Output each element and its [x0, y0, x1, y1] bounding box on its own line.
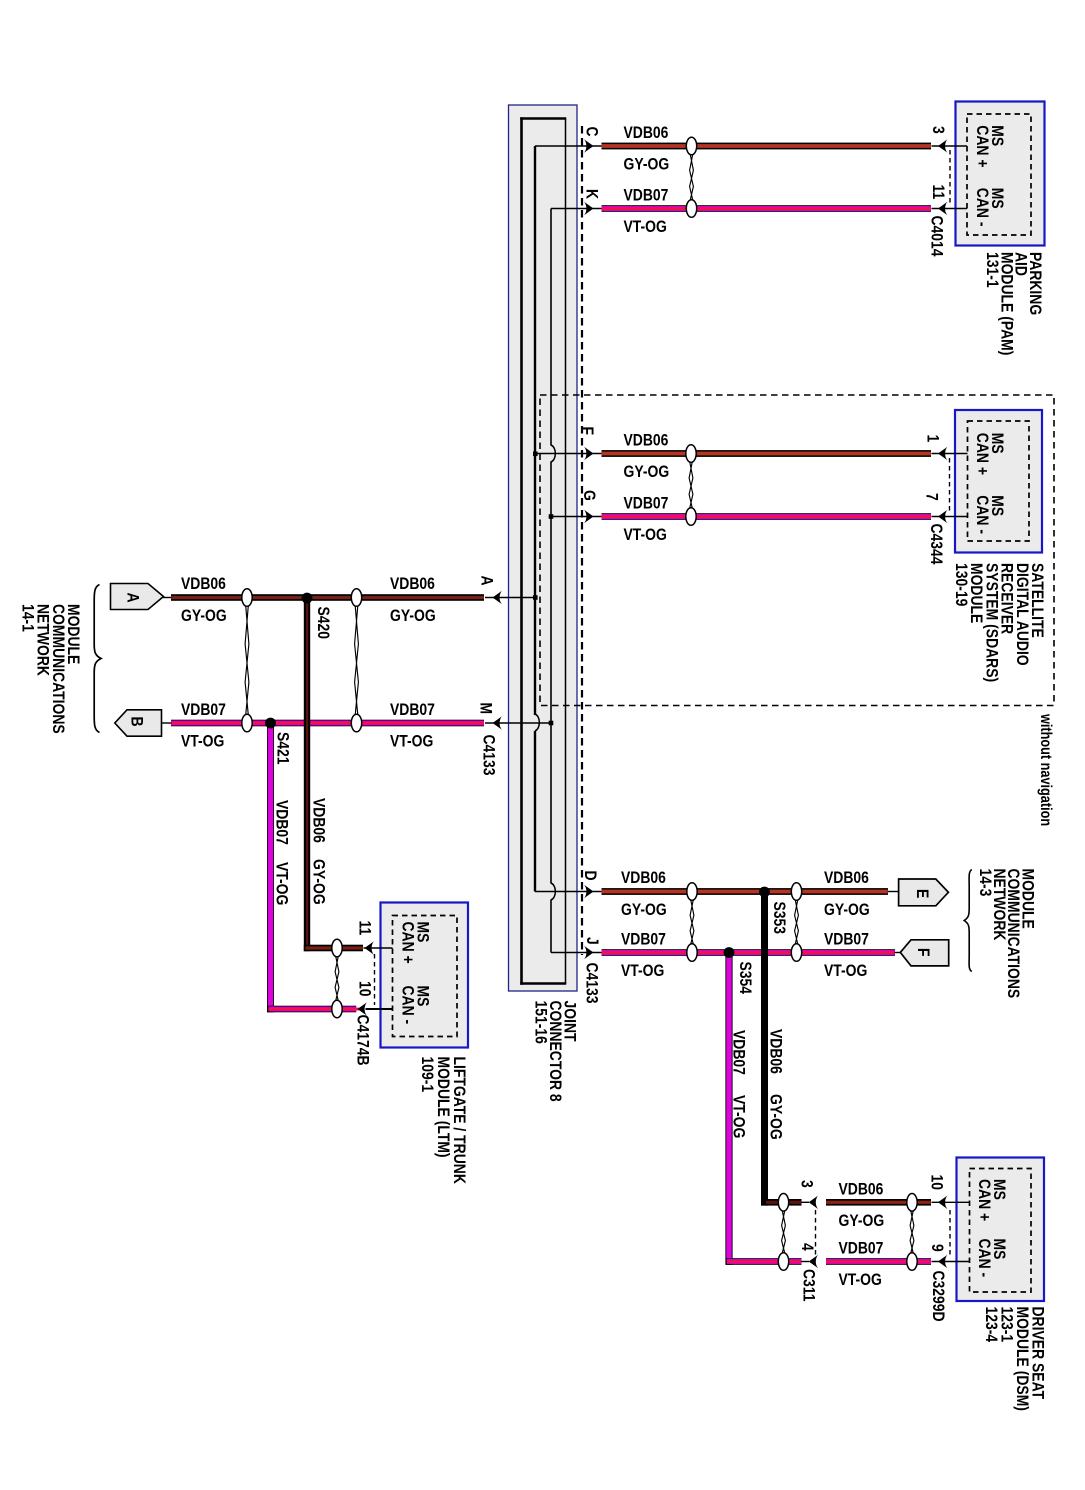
joint connector 8 outer box — [509, 105, 578, 991]
CAN+ internal bus bar lower segment — [534, 731, 536, 892]
svg-text:10: 10 — [927, 1175, 946, 1190]
splice S354 — [724, 947, 735, 958]
connector C4174B dashed stub — [374, 954, 376, 1005]
wire VDB06 GY-OG row F — [602, 450, 932, 457]
svg-text:CAN +: CAN + — [975, 1179, 994, 1221]
parking aid module box — [956, 102, 1045, 246]
stub pentagon F — [895, 952, 904, 954]
svg-text:VDB06: VDB06 — [624, 431, 669, 450]
joint connector body left edge — [520, 117, 523, 984]
svg-text:GY-OG: GY-OG — [390, 607, 436, 626]
arrow LTM pin 10 — [358, 1002, 368, 1016]
svg-text:VT-OG: VT-OG — [181, 732, 224, 751]
tail line DSM pin 10 — [932, 1201, 970, 1203]
arrow PAM pin 11 — [938, 202, 948, 216]
network connector pentagon F — [900, 940, 948, 966]
svg-text:109-1: 109-1 — [418, 1057, 437, 1093]
tap line pin D — [535, 891, 602, 893]
svg-text:K: K — [582, 189, 601, 200]
svg-text:VDB07: VDB07 — [729, 1030, 748, 1075]
svg-text:S421: S421 — [273, 732, 292, 765]
arrow SDARS pin 1 — [938, 447, 948, 461]
arrow pin A left exit — [493, 591, 503, 605]
wire DSM stub from S354 elbow to C311 — [726, 1258, 802, 1265]
svg-text:C3299D: C3299D — [929, 1271, 948, 1322]
twisted pair symbol LTM rows — [332, 939, 342, 1018]
twisted pair symbol DSM rows first — [778, 1194, 788, 1271]
twisted pair symbol A-B rows first — [242, 589, 252, 732]
joint connector body bottom edge — [520, 982, 566, 985]
svg-text:M: M — [476, 703, 495, 715]
twisted pair symbol F-G rows — [686, 445, 696, 526]
svg-text:7: 7 — [922, 493, 941, 501]
wire VDB07 VT-OG row B left — [171, 720, 484, 727]
svg-text:CAN -: CAN - — [398, 986, 417, 1025]
arrow PAM pin 3 — [938, 139, 948, 153]
tap line pin F — [535, 453, 602, 455]
svg-text:C4344: C4344 — [927, 524, 946, 565]
arrow LTM pin 11 — [365, 941, 375, 955]
svg-text:CAN -: CAN - — [973, 495, 992, 534]
twisted pair symbol DSM rows second — [907, 1194, 917, 1271]
arrow pin J — [584, 946, 594, 960]
svg-text:B: B — [127, 717, 146, 727]
svg-text:C: C — [582, 127, 601, 137]
svg-text:VDB06: VDB06 — [390, 575, 435, 594]
svg-text:J: J — [583, 937, 602, 945]
svg-text:CAN -: CAN - — [975, 1239, 994, 1278]
svg-text:GY-OG: GY-OG — [621, 901, 667, 920]
svg-text:GY-OG: GY-OG — [624, 155, 670, 174]
wire VDB07 VT-OG row G — [602, 513, 932, 520]
wire VDB06 GY-OG row C — [602, 143, 932, 150]
svg-text:VDB06: VDB06 — [181, 575, 226, 594]
stub pentagon A — [163, 597, 172, 599]
svg-text:VT-OG: VT-OG — [839, 1271, 882, 1290]
junction dot F tap — [533, 452, 538, 457]
svg-text:14-3: 14-3 — [975, 869, 994, 897]
svg-text:VDB06: VDB06 — [824, 869, 869, 888]
tail line SDARS pin 1 — [932, 453, 968, 455]
connector C4014 dashed stub — [949, 150, 951, 205]
svg-text:GY-OG: GY-OG — [824, 901, 870, 920]
arrow DSM pin 10 — [938, 1196, 948, 1210]
svg-text:C311: C311 — [799, 1269, 818, 1302]
svg-text:GY-OG: GY-OG — [624, 463, 670, 482]
svg-text:VDB06: VDB06 — [621, 869, 666, 888]
svg-text:VDB07: VDB07 — [621, 930, 666, 949]
svg-text:VDB06: VDB06 — [766, 1029, 785, 1074]
wire DSM stub from S353 elbow to C311 — [761, 1199, 802, 1206]
svg-text:VDB07: VDB07 — [181, 701, 226, 720]
arrow pin D — [584, 885, 594, 899]
svg-text:VDB06: VDB06 — [624, 124, 669, 143]
svg-text:CAN +: CAN + — [398, 922, 417, 964]
splice S353 — [759, 887, 770, 898]
driver seat module box — [957, 1158, 1045, 1302]
svg-text:123-4: 123-4 — [982, 1307, 1001, 1343]
svg-text:GY-OG: GY-OG — [839, 1212, 885, 1231]
CAN- internal bus bar middle segment — [550, 462, 552, 884]
arrow pin K — [584, 202, 594, 216]
svg-text:G: G — [580, 490, 599, 501]
arrow C311 pin 3 — [809, 1196, 819, 1210]
brace module communications network 14-3 — [964, 870, 972, 972]
svg-text:A: A — [477, 576, 496, 586]
twisted pair symbol D-J rows first — [687, 883, 697, 962]
wire LTM pin 10 horizontal VDB07 — [267, 1006, 356, 1013]
svg-text:GY-OG: GY-OG — [181, 607, 227, 626]
tap line pin A to left exit — [485, 597, 535, 599]
joint connector body top edge — [520, 117, 566, 120]
wire DSM row 3-10 VDB06 — [826, 1199, 931, 1206]
wire splice S354 vertical drop VDB07 — [725, 953, 732, 1265]
svg-text:D: D — [581, 871, 600, 881]
wire DSM row 4-9 VDB07 — [826, 1258, 931, 1265]
svg-text:VDB07: VDB07 — [824, 930, 869, 949]
tail line C311 pin 3 — [801, 1201, 809, 1203]
svg-text:CAN +: CAN + — [973, 433, 992, 475]
svg-text:151-16: 151-16 — [531, 1001, 550, 1045]
CAN- internal bus bar upper segment — [550, 209, 552, 446]
connector C311 dashed stub — [815, 1210, 817, 1257]
tap line pin K — [551, 208, 602, 210]
brace module communications network 14-1 — [94, 585, 101, 733]
network connector pentagon E — [899, 879, 949, 906]
wire VDB06 GY-OG row D — [602, 888, 889, 895]
connector C4133 dashed line — [581, 126, 583, 955]
CAN- internal bus bar lower segment — [550, 900, 552, 953]
parking aid module inner dashed rect — [967, 114, 1031, 235]
svg-text:GY-OG: GY-OG — [766, 1094, 785, 1140]
svg-text:10: 10 — [355, 981, 374, 996]
svg-text:130-19: 130-19 — [952, 563, 971, 607]
network connector pentagon A — [111, 584, 164, 610]
stub pentagon E — [888, 891, 899, 893]
svg-text:A: A — [123, 593, 142, 603]
svg-text:S353: S353 — [770, 902, 789, 935]
junction dot A tap — [533, 595, 538, 600]
svg-text:3: 3 — [797, 1180, 816, 1188]
svg-text:VT-OG: VT-OG — [729, 1095, 748, 1138]
svg-text:S354: S354 — [736, 962, 755, 995]
svg-text:VDB07: VDB07 — [839, 1239, 884, 1258]
svg-text:4: 4 — [798, 1243, 817, 1251]
svg-text:C4014: C4014 — [927, 216, 946, 257]
driver seat module inner dashed rect — [970, 1169, 1032, 1293]
CAN- bus jog around F wire — [551, 445, 555, 462]
wire VDB07 VT-OG row J — [602, 949, 896, 956]
junction dot G tap — [549, 514, 554, 519]
svg-text:E: E — [913, 889, 932, 898]
svg-text:VT-OG: VT-OG — [272, 862, 291, 905]
svg-text:C4133: C4133 — [479, 735, 498, 776]
splice S420 — [302, 593, 313, 604]
svg-text:VT-OG: VT-OG — [624, 218, 667, 237]
stub pentagon B — [162, 722, 172, 724]
svg-text:F: F — [578, 427, 597, 436]
wire LTM pin 11 horizontal VDB06 — [304, 945, 363, 952]
tap line pin J — [551, 952, 602, 954]
liftgate trunk module inner dashed rect — [393, 916, 458, 1037]
tap line pin G — [551, 516, 602, 518]
svg-text:11: 11 — [929, 185, 948, 200]
svg-text:VT-OG: VT-OG — [390, 732, 433, 751]
arrow pin C — [584, 139, 594, 153]
svg-text:3: 3 — [929, 126, 948, 134]
wire splice S353 vertical drop VDB06 black — [761, 892, 768, 1206]
svg-text:CAN -: CAN - — [973, 188, 992, 227]
svg-text:C4174B: C4174B — [353, 1015, 372, 1066]
CAN+ bus jog around M wire — [535, 714, 539, 731]
svg-text:VDB07: VDB07 — [272, 800, 291, 845]
svg-text:11: 11 — [355, 921, 374, 936]
svg-text:9: 9 — [928, 1244, 947, 1252]
without navigation dashed box — [540, 395, 1054, 706]
svg-text:14-1: 14-1 — [18, 604, 37, 632]
tail line PAM pin 11 — [932, 208, 968, 210]
tap line pin C — [535, 145, 602, 147]
svg-text:VT-OG: VT-OG — [624, 526, 667, 545]
svg-text:VT-OG: VT-OG — [621, 962, 664, 981]
arrow C311 pin 4 — [809, 1255, 819, 1269]
svg-text:VDB07: VDB07 — [624, 186, 669, 205]
tail line PAM pin 3 — [932, 145, 968, 147]
svg-text:VDB06: VDB06 — [839, 1180, 884, 1199]
svg-text:1: 1 — [923, 435, 942, 443]
connector C4344 dashed stub — [949, 458, 951, 513]
tail line C311 pin 4 — [801, 1261, 809, 1263]
svg-text:VT-OG: VT-OG — [824, 962, 867, 981]
junction dot M tap — [549, 721, 554, 726]
tail line LTM pin 10 — [366, 1008, 393, 1010]
tail line SDARS pin 7 — [932, 516, 968, 518]
wire splice S421 vertical drop VDB07 — [267, 723, 274, 1012]
SDARS module box — [955, 410, 1042, 553]
twisted pair symbol C-K rows — [686, 137, 696, 217]
svg-text:GY-OG: GY-OG — [309, 859, 328, 905]
svg-text:VDB07: VDB07 — [390, 701, 435, 720]
svg-text:131-1: 131-1 — [983, 252, 1002, 288]
SDARS module inner dashed rect — [968, 421, 1030, 541]
svg-text:without navigation: without navigation — [1037, 713, 1054, 826]
svg-text:VDB06: VDB06 — [309, 798, 328, 843]
wire VDB06 GY-OG row A left — [171, 594, 484, 601]
connector C3299D dashed stub — [949, 1210, 951, 1257]
arrow pin M left exit — [493, 716, 503, 730]
CAN+ internal bus bar upper segment — [534, 146, 536, 715]
splice S421 — [265, 718, 276, 729]
tap line pin M to left exit — [485, 722, 551, 724]
arrow DSM pin 9 — [938, 1255, 948, 1269]
twisted pair symbol D-J rows second — [791, 883, 801, 962]
twisted pair symbol A-B rows second — [351, 589, 361, 732]
svg-text:S420: S420 — [314, 607, 333, 640]
joint connector body right edge — [565, 118, 567, 984]
arrow pin F — [584, 447, 594, 461]
tail line LTM pin 11 — [364, 947, 393, 949]
svg-text:C4133: C4133 — [582, 963, 601, 1004]
arrow pin G — [584, 510, 594, 524]
arrow SDARS pin 7 — [938, 510, 948, 524]
network connector pentagon B — [115, 710, 162, 736]
tail line DSM pin 9 — [932, 1261, 970, 1263]
svg-text:VDB07: VDB07 — [624, 494, 669, 513]
CAN- bus jog around D wire — [551, 883, 555, 900]
wire VDB07 VT-OG row K — [602, 205, 932, 212]
svg-text:CAN +: CAN + — [973, 125, 992, 167]
svg-text:F: F — [914, 948, 933, 957]
wire splice S420 vertical drop VDB06 — [304, 598, 310, 951]
liftgate trunk module box — [381, 903, 469, 1048]
